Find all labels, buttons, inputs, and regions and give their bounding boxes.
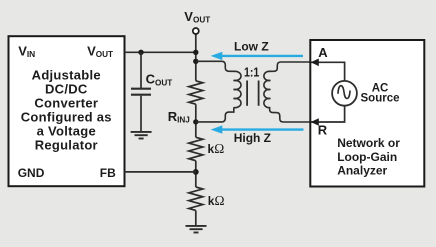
- node: COUT junction: [138, 50, 143, 55]
- node: VOUT junction: [193, 50, 198, 55]
- transformer T1 primary lead (top): [196, 61, 235, 71]
- transformer T1 secondary lead (top): [269, 62, 310, 71]
- svg-text:VOUT: VOUT: [184, 9, 210, 25]
- svg-text:1:1: 1:1: [244, 64, 259, 79]
- node: transformer tap junction: [193, 59, 198, 64]
- wire: COUT branch upper: [140, 52, 142, 88]
- converter block U1: Adjustable DC/DC Converter: [9, 36, 125, 186]
- terminal VOUT (open circle): [193, 28, 199, 34]
- wire: R1 to FB node: [195, 161, 197, 187]
- resistor R1 (kOhm upper): [189, 137, 203, 160]
- arrowhead A: [311, 59, 319, 67]
- wire: main vertical VOUT net: [195, 34, 197, 81]
- transformer T1 primary winding: [234, 71, 242, 107]
- wire: RINJ to node: [195, 104, 197, 137]
- transformer T1 secondary lead (bottom): [270, 108, 311, 122]
- svg-text:kΩ: kΩ: [208, 193, 225, 208]
- svg-text:COUT: COUT: [146, 72, 173, 88]
- resistor RINJ: [189, 81, 203, 104]
- transformer T1 secondary winding: [264, 71, 271, 107]
- svg-text:kΩ: kΩ: [208, 141, 225, 156]
- wire: COUT branch lower: [140, 96, 142, 132]
- annotation arrow: Low Z: [211, 52, 303, 60]
- svg-text:GND: GND: [18, 166, 45, 180]
- svg-text:RINJ: RINJ: [168, 109, 190, 125]
- wire: FB pin to junction: [125, 171, 196, 173]
- ground (bottom): [186, 226, 207, 233]
- node: FB junction: [193, 169, 199, 175]
- arrowhead R: [311, 118, 319, 126]
- capacitor COUT: [131, 89, 151, 95]
- wire: VOUT pin to node: [125, 51, 196, 53]
- transformer T1 core: [247, 81, 259, 106]
- AC source V1: [332, 81, 357, 106]
- svg-text:R: R: [318, 122, 328, 137]
- svg-text:Low Z: Low Z: [234, 40, 269, 54]
- wire: R2 to ground: [195, 210, 197, 225]
- transformer T1 primary lead (bottom): [196, 108, 234, 122]
- svg-text:A: A: [318, 45, 328, 60]
- svg-text:FB: FB: [100, 166, 116, 180]
- resistor R2 (kOhm lower): [189, 187, 203, 210]
- annotation arrow: High Z: [211, 125, 304, 133]
- ground (COUT): [131, 132, 152, 139]
- svg-text:High Z: High Z: [234, 131, 271, 145]
- node: RINJ junction: [193, 119, 198, 124]
- analyzer block: Network or Loop-Gain Analyzer: [310, 40, 424, 187]
- wire: R terminal to AC source: [311, 106, 345, 122]
- wire: A terminal to AC source: [311, 62, 345, 80]
